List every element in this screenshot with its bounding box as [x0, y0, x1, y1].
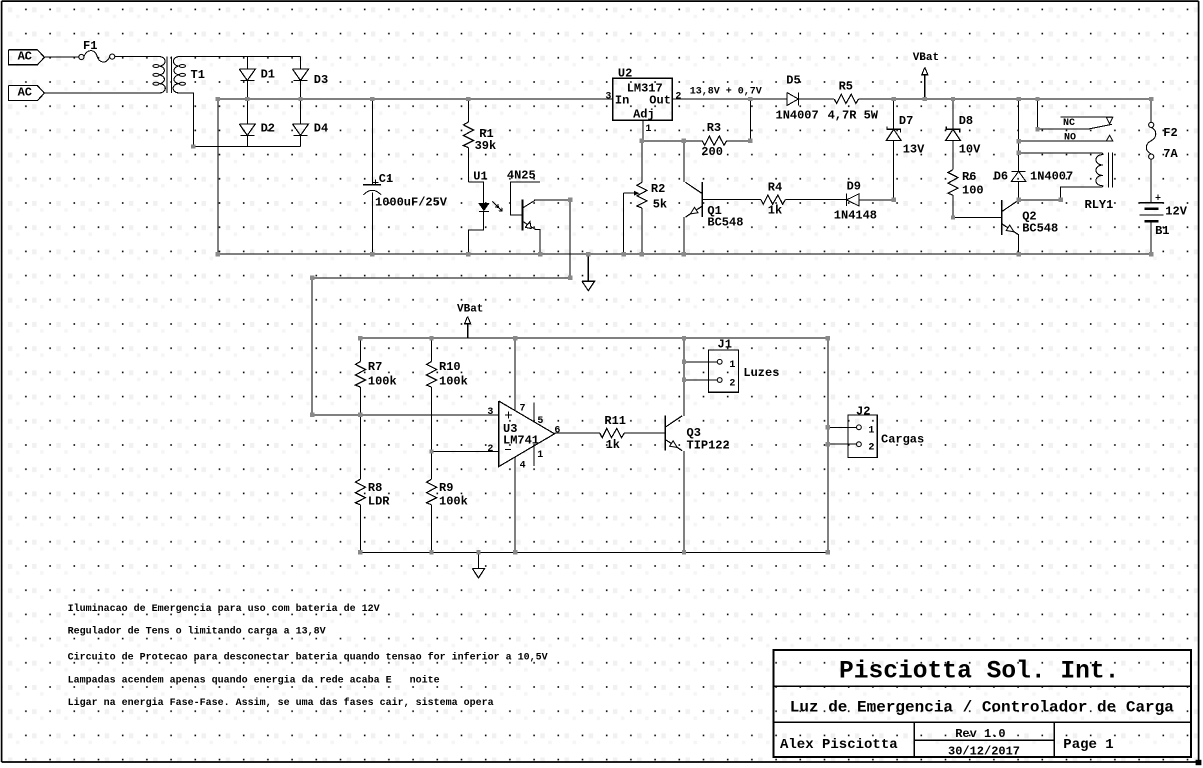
svg-text:200: 200 [701, 145, 723, 159]
svg-text:U2: U2 [618, 67, 632, 81]
svg-text:Luz de Emergencia / Controlado: Luz de Emergencia / Controlador de Carga [790, 699, 1174, 717]
svg-text:D5: D5 [786, 74, 800, 88]
svg-text:AC: AC [18, 50, 32, 64]
svg-text:12V: 12V [1165, 205, 1187, 219]
svg-text:R6: R6 [962, 170, 976, 184]
svg-text:4: 4 [520, 460, 526, 471]
svg-text:LDR: LDR [368, 495, 390, 509]
svg-text:R9: R9 [439, 481, 453, 495]
svg-text:100k: 100k [439, 375, 468, 389]
svg-text:6: 6 [554, 426, 560, 437]
svg-text:100k: 100k [439, 495, 468, 509]
svg-text:R3: R3 [707, 121, 721, 135]
svg-text:2: 2 [868, 443, 874, 454]
svg-text:4,7R 5W: 4,7R 5W [828, 109, 879, 123]
svg-text:Cargas: Cargas [881, 433, 924, 447]
svg-text:VBat: VBat [457, 304, 483, 316]
svg-text:R2: R2 [651, 182, 665, 196]
svg-text:Rev 1.0: Rev 1.0 [955, 727, 1005, 741]
svg-text:39k: 39k [475, 139, 497, 153]
svg-text:13V: 13V [903, 142, 925, 156]
svg-text:BC548: BC548 [1022, 222, 1058, 236]
svg-text:D9: D9 [847, 179, 861, 193]
svg-text:1: 1 [645, 124, 651, 135]
svg-text:R8: R8 [368, 481, 382, 495]
svg-text:Out: Out [649, 93, 671, 107]
svg-text:D4: D4 [314, 121, 328, 135]
svg-text:T1: T1 [191, 68, 205, 82]
svg-text:7A: 7A [1163, 147, 1178, 161]
svg-text:F1: F1 [83, 39, 97, 53]
svg-text:5k: 5k [653, 197, 667, 211]
svg-text:Page 1: Page 1 [1063, 737, 1113, 753]
svg-text:3: 3 [487, 407, 493, 418]
svg-text:D3: D3 [314, 73, 328, 87]
svg-text:13,8V + 0,7V: 13,8V + 0,7V [690, 87, 762, 98]
svg-text:LM741: LM741 [503, 433, 539, 447]
svg-text:R5: R5 [839, 79, 853, 93]
svg-text:Circuito de Protecao para desc: Circuito de Protecao para desconectar ba… [68, 652, 548, 664]
svg-text:In: In [615, 93, 629, 107]
svg-text:AC: AC [18, 85, 32, 99]
svg-text:TIP122: TIP122 [687, 438, 730, 452]
svg-text:10V: 10V [959, 142, 981, 156]
svg-text:Ligar na energia Fase-Fase. As: Ligar na energia Fase-Fase. Assim, se um… [68, 697, 494, 709]
svg-text:J1: J1 [718, 337, 732, 351]
svg-text:1N4148: 1N4148 [834, 208, 877, 222]
svg-text:30/12/2017: 30/12/2017 [948, 745, 1020, 759]
svg-text:4N25: 4N25 [507, 169, 536, 183]
svg-text:R11: R11 [604, 414, 626, 428]
svg-text:BC548: BC548 [707, 216, 743, 230]
svg-text:Lampadas acendem apenas quando: Lampadas acendem apenas quando energia d… [68, 675, 440, 687]
svg-text:1: 1 [537, 450, 543, 461]
svg-text:Luzes: Luzes [743, 366, 779, 380]
svg-text:J2: J2 [856, 404, 870, 418]
svg-text:3: 3 [605, 92, 611, 103]
svg-text:VBat: VBat [913, 52, 939, 64]
svg-text:2: 2 [487, 444, 493, 455]
svg-text:1N4007: 1N4007 [1030, 170, 1073, 184]
svg-text:Regulador de Tens o limitando: Regulador de Tens o limitando carga a 13… [68, 626, 326, 638]
svg-text:Iluminacao de Emergencia para: Iluminacao de Emergencia para uso com ba… [68, 603, 380, 615]
svg-text:1: 1 [729, 360, 735, 371]
svg-text:2: 2 [675, 92, 681, 103]
svg-text:NO: NO [1064, 132, 1076, 143]
svg-text:R4: R4 [768, 180, 782, 194]
svg-text:5: 5 [537, 416, 543, 427]
svg-text:F2: F2 [1163, 126, 1177, 140]
svg-text:Alex Pisciotta: Alex Pisciotta [780, 737, 898, 753]
svg-text:Pisciotta Sol. Int.: Pisciotta Sol. Int. [839, 659, 1119, 686]
svg-text:R7: R7 [368, 360, 382, 374]
svg-text:1: 1 [868, 426, 874, 437]
svg-text:2: 2 [729, 378, 735, 389]
svg-text:D8: D8 [959, 114, 973, 128]
svg-text:7: 7 [520, 403, 526, 414]
svg-text:B1: B1 [1155, 224, 1169, 238]
svg-text:R10: R10 [439, 360, 461, 374]
svg-text:D2: D2 [261, 121, 275, 135]
svg-text:1000uF/25V: 1000uF/25V [375, 196, 448, 210]
svg-text:RLY1: RLY1 [1085, 198, 1114, 212]
svg-text:1k: 1k [606, 438, 620, 452]
svg-text:100k: 100k [368, 375, 397, 389]
svg-text:U1: U1 [473, 169, 487, 183]
svg-text:D1: D1 [261, 67, 275, 81]
svg-text:1k: 1k [768, 203, 782, 217]
svg-text:NC: NC [1063, 118, 1075, 129]
svg-text:100: 100 [962, 183, 984, 197]
svg-text:1N4007: 1N4007 [776, 109, 819, 123]
svg-text:C1: C1 [379, 172, 393, 186]
svg-text:D7: D7 [899, 114, 913, 128]
svg-text:Adj: Adj [633, 107, 655, 121]
svg-text:D6: D6 [994, 170, 1008, 184]
